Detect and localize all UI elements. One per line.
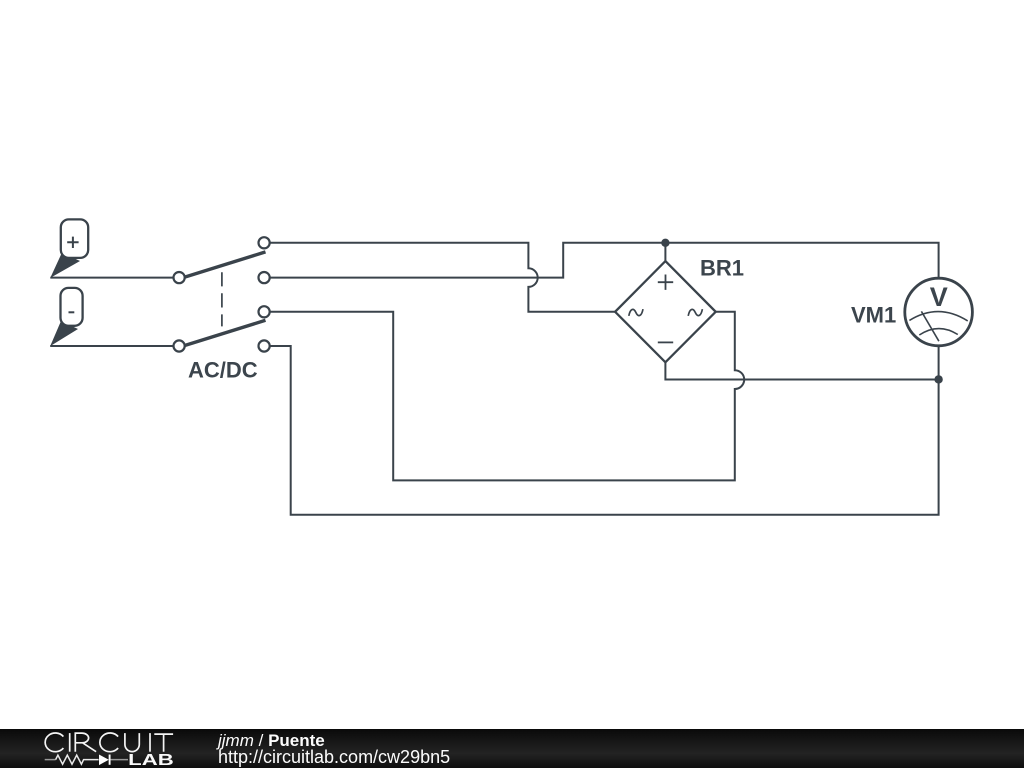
wire: switch throw 1 to bridge AC left (with hop over row2 wire) xyxy=(264,243,615,312)
BR1 AC mark right xyxy=(688,308,703,316)
voltmeter VM1 body xyxy=(905,278,973,346)
terminal - glyph xyxy=(69,311,75,313)
switch throw contact 4 xyxy=(259,340,270,351)
BR1 AC mark left xyxy=(628,308,643,316)
wire: voltmeter bottom to junction xyxy=(938,346,940,380)
footer bar xyxy=(0,729,1024,768)
switch SW lever 2 xyxy=(184,320,266,346)
wire: switch throw 2 up to top net xyxy=(264,243,665,278)
VM1 needle xyxy=(921,311,939,341)
wire: - terminal to switch pole 2 xyxy=(50,345,179,347)
wire: bridge minus output to bottom-right junction xyxy=(665,362,938,379)
VM1 gauge lower arc xyxy=(919,329,958,335)
switch SW gang link (dashed) xyxy=(221,272,223,326)
logo diode cathode bar xyxy=(109,755,111,765)
VM1 gauge upper arc xyxy=(909,312,967,321)
wire: top net, junction to voltmeter top xyxy=(665,243,938,279)
terminal + flag bubble xyxy=(61,219,88,258)
logo letter R xyxy=(75,733,96,752)
wire: + terminal to switch pole 1 xyxy=(50,277,179,279)
logo letter U xyxy=(125,733,139,752)
terminal - flag bubble xyxy=(61,288,83,326)
logo wire left xyxy=(45,759,56,761)
wire: switch throw 4 to bottom rail up to junction xyxy=(264,346,939,515)
bridge rectifier BR1 body xyxy=(615,261,716,362)
terminal + flag tail xyxy=(50,253,80,278)
junction: voltmeter bottom node xyxy=(934,375,942,383)
BR1 minus mark xyxy=(658,341,673,343)
switch pole contact 1 xyxy=(174,272,185,283)
svg-text:VM1: VM1 xyxy=(851,302,896,327)
svg-text:BR1: BR1 xyxy=(700,255,744,280)
switch throw contact 3 xyxy=(259,306,270,317)
logo letter C xyxy=(45,733,63,752)
footer credit text xyxy=(218,732,450,766)
svg-text:AC/DC: AC/DC xyxy=(188,358,258,383)
logo resistor zigzag xyxy=(56,755,99,764)
junction: top net at bridge plus xyxy=(661,239,669,247)
switch pole contact 2 xyxy=(174,340,185,351)
terminal - flag tail xyxy=(50,321,78,346)
terminal + glyph xyxy=(67,237,78,248)
wire: bridge top vertex to top net junction xyxy=(664,243,666,261)
switch throw contact 2 xyxy=(259,272,270,283)
logo wire right xyxy=(111,759,129,761)
switch SW lever 1 xyxy=(184,252,266,278)
logo letter C xyxy=(100,733,118,752)
logo letter I xyxy=(149,733,151,752)
logo letter T xyxy=(154,734,173,752)
switch throw contact 1 xyxy=(259,237,270,248)
logo diode triangle xyxy=(99,755,109,766)
BR1 plus mark xyxy=(658,275,673,290)
wire: switch throw 3 to bridge AC right (with hop over bottom wire) xyxy=(264,312,744,481)
logo letter I xyxy=(69,733,71,752)
svg-text:V: V xyxy=(930,282,948,312)
